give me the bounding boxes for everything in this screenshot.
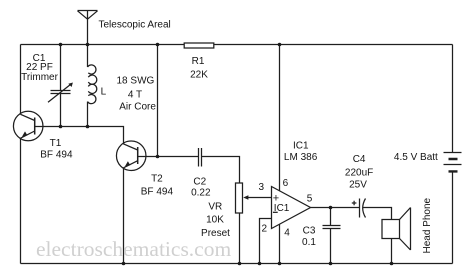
- battery 4.5V cells: [444, 153, 462, 172]
- transistor T1 BF494: [13, 111, 43, 141]
- junction C1 top on rail: [59, 43, 63, 47]
- svg-text:T1: T1: [50, 138, 62, 149]
- label C1 value: [21, 53, 59, 83]
- junction head phone on ground: [390, 262, 394, 266]
- label IC1 LM386: [284, 141, 318, 164]
- svg-text:+: +: [273, 193, 279, 205]
- wire right rail upper (top rail to battery +): [452, 45, 454, 153]
- svg-text:LM 386: LM 386: [284, 152, 318, 163]
- junction C3 bottom on ground: [329, 262, 333, 266]
- label T2: [141, 174, 174, 198]
- wire left rail upper (T1 collector to top rail): [20, 45, 22, 115]
- wire T2 base node to C2: [146, 156, 199, 158]
- svg-text:22K: 22K: [190, 70, 208, 81]
- head phone speaker: [382, 208, 411, 251]
- label C4 value: [345, 154, 373, 191]
- junction C1 bottom on base wire: [59, 125, 63, 129]
- svg-text:Head Phone: Head Phone: [422, 197, 433, 253]
- svg-text:C2: C2: [193, 177, 206, 188]
- svg-text:0.1: 0.1: [302, 237, 316, 248]
- wire left rail lower (T1 emitter to ground rail): [20, 138, 22, 263]
- capacitor C2: [199, 148, 202, 167]
- svg-text:4: 4: [284, 228, 290, 239]
- antenna symbol: [78, 11, 98, 45]
- svg-text:L: L: [101, 87, 107, 98]
- wire T2 collector node riser to top rail: [157, 45, 159, 157]
- wire VR bottom to ground rail: [239, 213, 241, 264]
- junction coil bottom on base wire: [86, 125, 90, 129]
- wire T1 base to tank and T2 collector: [43, 127, 124, 145]
- label C2 value: [191, 177, 211, 199]
- resistor R1 22K: [184, 43, 214, 48]
- pin 2 wire IC1 to ground: [260, 219, 272, 264]
- capacitor C3 0.1: [323, 208, 341, 264]
- svg-text:4.5 V Batt: 4.5 V Batt: [394, 152, 438, 163]
- label T1: [40, 138, 73, 161]
- capacitor C4 220uF electrolytic: [352, 199, 366, 218]
- label C3 value: [302, 226, 316, 249]
- pin 6 wire from top rail to IC1: [279, 45, 281, 192]
- wire right rail lower (battery - to ground): [452, 172, 454, 264]
- wire C4 to head phone: [363, 208, 392, 220]
- svg-text:T2: T2: [151, 174, 163, 185]
- wire top rail left segment: [21, 44, 185, 46]
- svg-text:IC1: IC1: [293, 141, 309, 152]
- op-amp IC1 LM386 triangle: [272, 187, 311, 229]
- wire top rail right segment: [214, 44, 453, 46]
- wire C2 to VR top: [202, 157, 240, 184]
- label R1 value: [190, 56, 208, 81]
- wire bottom ground rail: [21, 263, 453, 265]
- transistor T2 BF494: [116, 141, 146, 171]
- junction pin2 on ground: [258, 262, 262, 266]
- inductor L coil: [88, 45, 97, 127]
- svg-text:0.22: 0.22: [191, 188, 211, 199]
- svg-text:18 SWG: 18 SWG: [117, 76, 155, 87]
- wire T2 emitter to ground rail: [123, 168, 125, 264]
- label VR value: [201, 202, 230, 239]
- pin 4 wire IC1 to ground: [279, 224, 281, 264]
- svg-text:5: 5: [307, 194, 313, 205]
- wire IC1 output pin 5: [311, 207, 360, 209]
- svg-text:BF 494: BF 494: [40, 150, 73, 161]
- junction output node C3 tap: [329, 206, 333, 210]
- svg-text:2: 2: [262, 224, 268, 235]
- svg-text:10K: 10K: [206, 215, 224, 226]
- junction VR bottom on ground: [238, 262, 242, 266]
- junction T2 emitter on ground: [122, 262, 126, 266]
- wire head phone to ground rail: [391, 239, 393, 264]
- svg-text:R1: R1: [192, 56, 205, 67]
- junction pin6 supply on rail: [278, 43, 282, 47]
- label minus input: [273, 211, 278, 213]
- svg-text:3: 3: [259, 182, 265, 193]
- svg-text:25V: 25V: [349, 180, 367, 191]
- svg-text:C3: C3: [303, 226, 316, 237]
- capacitor C1 trimmer: [48, 45, 73, 127]
- junction antenna and coil on rail: [86, 43, 90, 47]
- svg-text:Air Core: Air Core: [119, 102, 156, 113]
- svg-text:4 T: 4 T: [128, 90, 142, 101]
- svg-text:Telescopic Areal: Telescopic Areal: [99, 20, 171, 31]
- svg-text:electroschematics.com: electroschematics.com: [36, 237, 231, 261]
- svg-text:Trimmer: Trimmer: [21, 72, 59, 83]
- svg-text:C4: C4: [353, 154, 366, 165]
- svg-text:VR: VR: [208, 202, 222, 213]
- label coil value: [117, 76, 157, 113]
- junction pin4 on ground: [278, 262, 282, 266]
- svg-text:6: 6: [283, 178, 289, 189]
- svg-text:BF 494: BF 494: [141, 187, 174, 198]
- junction riser on rail: [156, 43, 160, 47]
- preset VR 10K body: [236, 183, 243, 213]
- junction T2 base node: [156, 155, 160, 159]
- svg-text:220uF: 220uF: [345, 168, 373, 179]
- wire VR wiper to IC1 pin 3: [243, 195, 271, 200]
